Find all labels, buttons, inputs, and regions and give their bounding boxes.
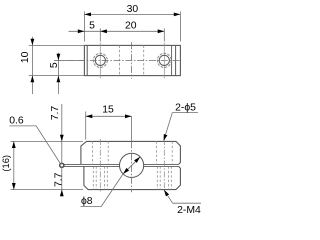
arrow 5 outside-left — [78, 29, 85, 33]
arrow 30 left — [84, 13, 91, 17]
dim 30 — [83, 12, 85, 42]
leader 0.6 — [10, 125, 37, 127]
arrow 20 left — [100, 29, 107, 33]
svg-text:5: 5 — [89, 21, 95, 32]
dim 7.7 lower — [61, 166, 63, 196]
hole center line bottom view x=164.3 — [163, 139, 165, 192]
dim 5 left — [54, 59, 84, 61]
leader phi8 — [123, 157, 140, 174]
arrow (16) top — [12, 141, 16, 148]
top view vertical center line — [131, 42, 133, 78]
phi8 vertical center line — [131, 141, 133, 192]
top view horizontal center line — [55, 59, 182, 61]
phi8 bore circle — [120, 153, 144, 177]
leader 2-M4 — [173, 202, 201, 204]
hole 1 center line (top view) — [99, 43, 101, 79]
svg-text:0.6: 0.6 — [9, 116, 24, 127]
dim 20 — [163, 28, 165, 41]
top view left chamfer edge — [86, 45, 88, 75]
arrow 7.7u top (outside, pointing down) — [60, 135, 64, 142]
top view hidden bore left — [119, 45, 121, 75]
svg-text:30: 30 — [127, 4, 139, 15]
dim 7.7 upper — [61, 104, 63, 164]
arrow 5 top (outside) — [57, 54, 61, 61]
dim 15 — [85, 112, 87, 140]
top view right inner edge — [171, 45, 173, 75]
hole 2 center line (top view) — [163, 43, 165, 79]
svg-text:ϕ8: ϕ8 — [81, 196, 93, 207]
arrow 10 bottom (outside) — [31, 76, 35, 83]
svg-text:7.7: 7.7 — [50, 106, 61, 121]
arrow 10 top (outside) — [31, 39, 35, 46]
hole 1 thread circle (dashed) — [93, 53, 107, 67]
svg-text:15: 15 — [102, 105, 114, 116]
arrow 7.7l bottom (outside, pointing up) — [60, 190, 64, 197]
phi8 arrow lower-left — [123, 168, 129, 174]
svg-text:(16): (16) — [0, 155, 11, 172]
arrow 5 bottom (outside) — [57, 76, 61, 83]
svg-text:2-M4: 2-M4 — [177, 205, 201, 215]
svg-text:2-ϕ5: 2-ϕ5 — [175, 102, 196, 113]
hole 2 thread circle (dashed) — [157, 53, 171, 67]
dim 10 — [29, 44, 85, 46]
hidden hole lines bottom view — [91, 141, 93, 164]
slit 0.6 — [64, 163, 120, 165]
top view hidden bore right — [143, 45, 145, 75]
bottom view outline: upper jaw — [81, 141, 180, 164]
top view outline — [84, 45, 180, 75]
top view right chamfer edge — [175, 45, 177, 75]
arrow 2-M4 — [164, 190, 169, 197]
svg-text:7.7: 7.7 — [53, 172, 64, 187]
dim (16) — [10, 140, 83, 142]
svg-text:5: 5 — [49, 62, 60, 68]
arrow 20 right — [158, 29, 165, 33]
ext/center line phi8 upper — [131, 117, 133, 142]
phi8 arrow upper-right — [134, 157, 140, 163]
arrow 15 left — [86, 114, 93, 118]
arrow 2-phi5 — [164, 134, 168, 141]
slit marker ball — [60, 163, 64, 167]
svg-text:20: 20 — [125, 21, 137, 32]
hole 1 inner circle — [95, 55, 105, 65]
arrow (16) bottom — [12, 183, 16, 190]
svg-text:10: 10 — [20, 51, 31, 63]
dim 5 top — [99, 28, 101, 41]
arrow 30 right — [174, 13, 181, 17]
hole 2 inner circle — [159, 55, 169, 65]
bottom view outline: lower jaw — [84, 166, 180, 189]
arrow 15 right — [125, 114, 132, 118]
leader 2-phi5 — [172, 112, 198, 114]
hole center line bottom view x=100.3 — [99, 139, 101, 192]
